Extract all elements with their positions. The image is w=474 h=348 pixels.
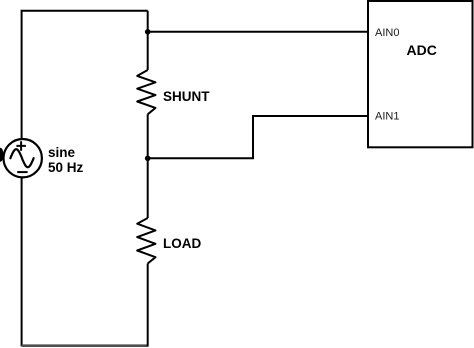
voltage source minus sign [17,171,27,173]
svg-text:50 Hz: 50 Hz [48,160,84,175]
wire middle junction down to load [147,158,149,218]
svg-text:AIN0: AIN0 [375,27,399,39]
ADC box U1 [368,1,473,147]
wire bottom horizontal [22,344,148,347]
resistor SHUNT zigzag [137,70,155,114]
wire shunt bottom lead to middle junction [147,114,149,158]
voltage source plus sign [16,141,26,151]
wire left vertical upper (top corner down to source) [21,10,23,140]
node junction dot top (shunt branch / AIN0) [145,29,151,35]
svg-text:LOAD: LOAD [163,236,201,251]
svg-text:ADC: ADC [407,42,437,58]
svg-text:SHUNT: SHUNT [163,89,210,104]
voltage source V1 circle [4,139,42,177]
voltage source sine waveform [10,149,33,167]
resistor LOAD zigzag [137,218,155,264]
node junction dot middle (shunt / load / AIN1) [145,156,151,162]
wire left vertical lower (source down to bottom wire) [21,177,23,346]
wire AIN0 horizontal to ADC [148,31,368,33]
svg-text:AIN1: AIN1 [375,111,399,123]
wire load bottom lead to bottom wire [147,264,149,347]
wire shunt branch vertical (top corner through junction to shunt) [147,11,149,70]
clipped terminal mark at left edge of source [0,148,4,162]
svg-text:sine: sine [48,145,76,160]
wire AIN1 stepped (junction right, up, right to ADC) [148,116,368,158]
wire top horizontal (source top to shunt branch) [22,10,148,12]
